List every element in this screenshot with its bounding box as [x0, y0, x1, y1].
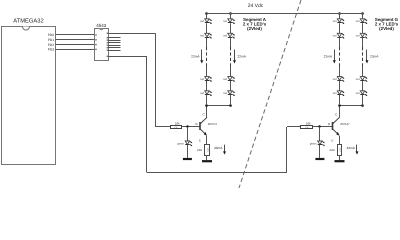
- svg-text:red: red: [333, 35, 337, 38]
- svg-text:red: red: [223, 92, 227, 95]
- svg-text:22mA: 22mA: [370, 55, 379, 59]
- svg-text:red: red: [356, 20, 360, 23]
- svg-text:10k: 10k: [306, 121, 311, 125]
- svg-text:PD3: PD3: [48, 48, 54, 52]
- svg-text:BC547: BC547: [341, 122, 351, 126]
- svg-text:green: green: [177, 142, 184, 145]
- svg-text:24 Vdc: 24 Vdc: [248, 3, 264, 9]
- svg-text:22mA: 22mA: [191, 55, 200, 59]
- svg-text:22mA: 22mA: [324, 55, 333, 59]
- svg-text:red: red: [223, 78, 227, 81]
- svg-text:red: red: [356, 92, 360, 95]
- svg-text:(2Vled): (2Vled): [379, 26, 394, 31]
- svg-text:red: red: [333, 78, 337, 81]
- svg-text:red: red: [223, 20, 227, 23]
- svg-text:green: green: [310, 142, 317, 145]
- svg-text:22R: 22R: [206, 148, 209, 153]
- svg-text:ATMEGA32: ATMEGA32: [13, 18, 44, 25]
- svg-text:red: red: [356, 35, 360, 38]
- svg-text:red: red: [223, 35, 227, 38]
- svg-text:red: red: [200, 78, 204, 81]
- svg-text:22R: 22R: [197, 148, 202, 152]
- svg-text:44mA: 44mA: [214, 146, 223, 150]
- svg-text:red: red: [200, 92, 204, 95]
- svg-text:22R: 22R: [330, 148, 335, 152]
- svg-text:red: red: [356, 78, 360, 81]
- svg-text:E: E: [199, 139, 201, 143]
- svg-text:PD1: PD1: [48, 38, 54, 42]
- svg-text:10k: 10k: [175, 121, 180, 125]
- svg-text:B: B: [196, 122, 198, 126]
- svg-text:PD2: PD2: [48, 43, 54, 47]
- svg-text:4543: 4543: [96, 23, 107, 28]
- svg-text:44mA: 44mA: [347, 146, 356, 150]
- svg-text:(2Vled): (2Vled): [247, 26, 262, 31]
- svg-text:red: red: [200, 35, 204, 38]
- svg-text:22mA: 22mA: [238, 55, 247, 59]
- svg-text:PD0: PD0: [48, 33, 54, 37]
- svg-text:red: red: [200, 20, 204, 23]
- svg-text:BC547: BC547: [208, 122, 218, 126]
- svg-text:E: E: [332, 139, 334, 143]
- svg-text:red: red: [333, 92, 337, 95]
- svg-text:22R: 22R: [339, 148, 342, 153]
- svg-text:red: red: [333, 20, 337, 23]
- svg-text:B: B: [328, 122, 330, 126]
